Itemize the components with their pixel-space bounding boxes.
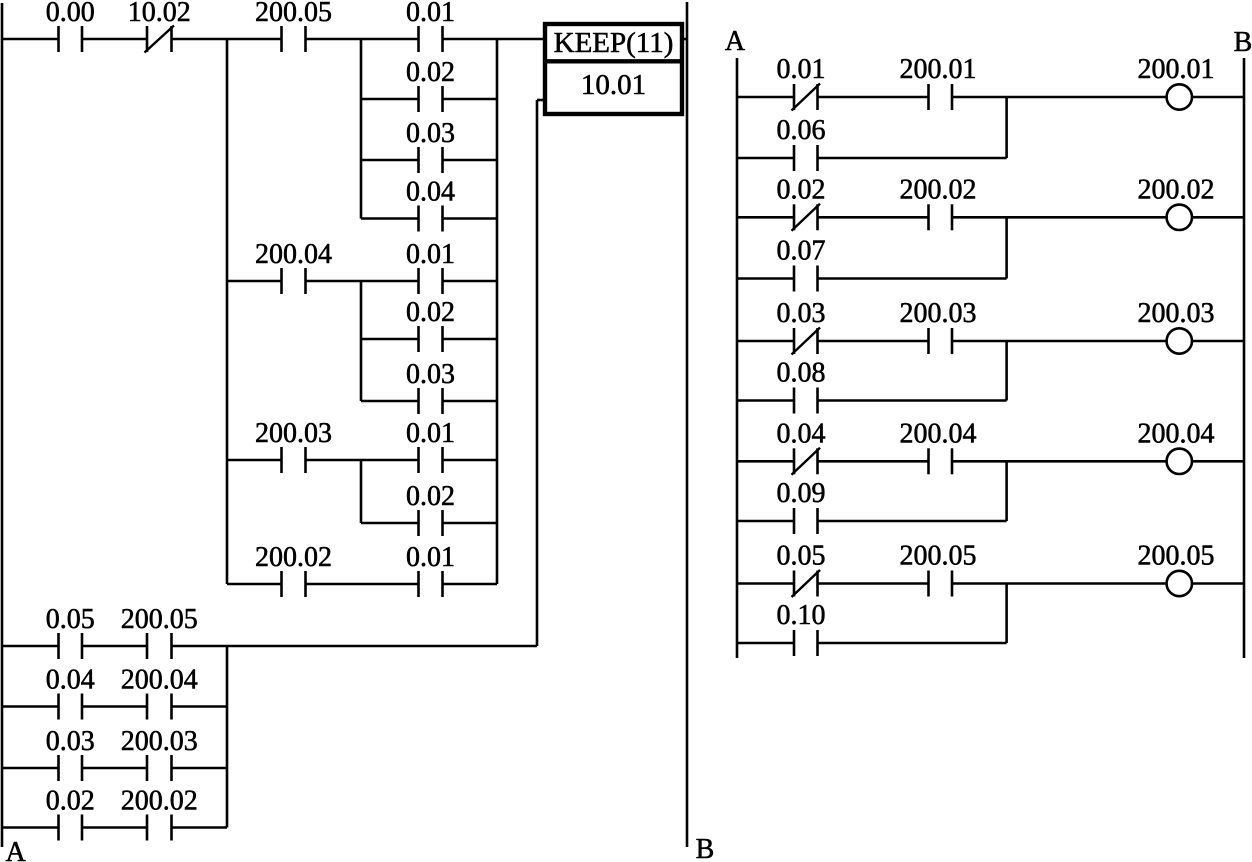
contact 10.02 NC [145,26,175,53]
wire reset stub into KEEP box [537,99,545,102]
svg-text:0.05: 0.05 [777,541,826,572]
coil 200.03 [1167,328,1192,353]
wire contact 0.02 to contact 200.02 [818,216,929,219]
wire reset vertical to KEEP box [536,100,539,646]
svg-text:200.04: 200.04 [121,665,198,696]
svg-text:B: B [1234,27,1252,58]
svg-text:0.04: 0.04 [777,418,826,449]
svg-text:0.07: 0.07 [777,236,826,267]
wire vertical branch J2 middle [360,281,363,401]
wire contact 200.05 to coil 200.05 [952,582,1167,585]
wire rail A to contact 0.10 [737,642,794,645]
svg-text:0.03: 0.03 [406,359,455,390]
svg-text:200.03: 200.03 [121,726,198,757]
svg-text:200.03: 200.03 [1138,298,1215,329]
contact 200.03 NO [147,755,172,781]
wire contact 0.03 to J3 [443,159,498,162]
wire contact 0.01 to contact 200.01 [818,96,929,99]
wire contact 0.03 to J3 [443,400,498,403]
coil 200.01 [1167,84,1192,109]
svg-text:200.04: 200.04 [1138,418,1215,449]
contact 0.00 NO [59,26,83,52]
wire contact 200.04 to coil 200.04 [952,460,1167,463]
wire branch rung to contact 0.02 [361,98,419,101]
wire vertical branch J3 [496,39,499,584]
wire contact 0.10 to junction [818,642,1007,645]
svg-text:0.00: 0.00 [46,0,95,28]
contact 0.03 NO [419,388,443,414]
wire contact 0.03 to contact 200.03 [82,767,147,770]
wire vertical branch J2 upper [360,39,363,219]
wire J1 to contact 200.03 [227,459,282,462]
wire lower branch vertical J1 [226,646,229,828]
wire contact 200.05 to reset vertical [172,645,538,648]
wire KEEP box to rail B [682,38,687,41]
wire contact 0.01 to J3 [443,459,498,462]
coil 200.05 [1167,571,1192,596]
svg-text:200.05: 200.05 [255,0,332,28]
svg-text:200.04: 200.04 [255,239,332,270]
wire rail A to contact 0.08 [737,399,794,402]
contact 200.05 NO [282,26,306,52]
wire contact 0.04 to contact 200.04 [82,705,147,708]
svg-text:KEEP(11): KEEP(11) [554,27,674,59]
contact 0.04 NO [59,694,83,720]
svg-text:0.02: 0.02 [406,481,455,512]
wire contact 200.04 to contact 0.01 [306,280,419,283]
coil 200.02 [1167,205,1192,230]
svg-text:200.02: 200.02 [121,786,198,817]
wire rail A to contact 0.02 [737,216,794,219]
wire rail A to contact 0.09 [737,520,794,523]
wire rail A to contact 0.06 [737,157,794,160]
svg-text:200.01: 200.01 [1138,54,1215,85]
instruction box KEEP(11) [545,24,682,114]
wire branch junction vertical 0.08 [1005,341,1008,401]
wire contact 0.02 to J3 [443,522,498,525]
contact 200.02 NO [147,815,172,841]
contact 0.01 NC [792,84,821,111]
wire branch rung to contact 0.03 [361,159,419,162]
svg-text:200.03: 200.03 [900,298,977,329]
wire contact 0.02 to J3 [443,338,498,341]
svg-text:B: B [696,834,715,862]
contact 0.09 NO [794,508,818,534]
wire contact 200.02 to contact 0.01 [306,583,419,586]
right ladder bus bar B [1243,58,1246,658]
left bus bar A (left rail) [1,3,4,847]
contact 0.03 NO [59,755,83,781]
svg-text:200.02: 200.02 [255,542,332,573]
contact 0.01 NO [419,447,443,473]
wire contact 0.02 to J3 [443,98,498,101]
svg-text:0.03: 0.03 [777,298,826,329]
wire rail A to contact 0.02 [2,826,59,829]
svg-text:A: A [725,26,746,57]
svg-text:0.04: 0.04 [406,177,455,208]
contact 0.10 NO [794,630,818,656]
contact 0.01 NO [419,268,443,294]
wire contact 0.04 to J3 [443,217,498,220]
wire contact 0.03 to contact 200.03 [818,340,929,343]
wire coil 200.04 to rail B [1192,460,1244,463]
svg-text:0.02: 0.02 [406,57,455,88]
svg-text:0.04: 0.04 [46,665,95,696]
wire J1 to contact 200.04 [227,280,282,283]
coil 200.04 [1167,449,1192,474]
svg-text:0.01: 0.01 [406,418,455,449]
wire rail A to contact 0.04 [2,705,59,708]
wire contact 200.03 to contact 0.01 [306,459,419,462]
svg-text:0.06: 0.06 [777,115,826,146]
svg-text:10.02: 10.02 [128,0,191,28]
svg-text:0.02: 0.02 [406,297,455,328]
contact 0.08 NO [794,388,818,414]
svg-text:200.02: 200.02 [1138,174,1215,205]
svg-text:0.01: 0.01 [777,54,826,85]
wire contact 0.08 to junction [818,399,1007,402]
wire contact 0.09 to junction [818,520,1007,523]
svg-text:0.05: 0.05 [46,604,95,635]
wire J1 to contact 200.02 [227,583,282,586]
wire rail A to contact 0.07 [737,277,794,280]
contact 200.03 NO [282,447,306,473]
svg-text:0.01: 0.01 [406,0,455,28]
wire rail A to contact 0.05 [737,582,794,585]
wire contact 0.07 to junction [818,277,1007,280]
contact 200.04 NO [282,268,306,294]
svg-text:200.02: 200.02 [900,174,977,205]
wire vertical branch J2 lower [360,460,363,523]
svg-text:0.01: 0.01 [406,542,455,573]
svg-text:0.01: 0.01 [406,239,455,270]
contact 0.01 NO [419,571,443,597]
contact 200.03 NO [929,328,953,354]
svg-text:0.03: 0.03 [406,118,455,149]
wire contact 200.02 to lower branch vertical [172,826,228,829]
contact 0.02 NO [419,86,443,112]
svg-text:0.02: 0.02 [777,174,826,205]
svg-text:200.05: 200.05 [1138,541,1215,572]
contact 200.04 NO [929,448,953,474]
wire rail A to contact 0.03 [2,767,59,770]
contact 0.04 NC [792,448,821,475]
wire contact 200.02 to coil 200.02 [952,216,1167,219]
svg-text:200.03: 200.03 [255,418,332,449]
contact 200.02 NO [929,204,953,230]
contact 0.05 NC [792,570,821,597]
svg-text:A: A [5,837,26,862]
wire contact 200.03 to lower branch vertical [172,767,228,770]
wire branch junction vertical 0.10 [1005,584,1008,644]
svg-text:0.02: 0.02 [46,786,95,817]
wire contact 0.01 to J3 [443,280,498,283]
wire contact 0.06 to junction [818,157,1007,160]
contact 0.07 NO [794,266,818,292]
wire contact 200.01 to coil 200.01 [952,96,1167,99]
contact 200.05 NO [929,571,953,597]
contact 200.05 NO [147,633,172,659]
wire vertical branch J1 [226,39,229,584]
contact 200.04 NO [147,694,172,720]
wire contact 0.00 to contact 10.02 [82,38,147,41]
contact 0.03 NO [419,147,443,173]
contact 200.01 NO [929,84,953,110]
svg-text:200.05: 200.05 [121,604,198,635]
wire rail A to contact 0.05 [2,645,59,648]
contact 0.02 NO [419,510,443,536]
contact 0.01 NO [419,26,443,52]
svg-text:0.03: 0.03 [46,726,95,757]
wire contact 0.01 to KEEP box through node J3 [443,38,546,41]
wire coil 200.03 to rail B [1192,340,1244,343]
right bus bar B (center rail) [686,2,689,847]
wire coil 200.05 to rail B [1192,582,1244,585]
wire branch junction vertical 0.07 [1005,217,1008,278]
wire contact 0.02 to contact 200.02 [82,826,147,829]
contact 200.02 NO [282,571,306,597]
contact 0.03 NC [792,328,821,355]
svg-text:0.08: 0.08 [777,358,826,389]
wire contact 0.01 to J3 [443,583,498,586]
svg-text:200.01: 200.01 [900,54,977,85]
wire coil 200.02 to rail B [1192,216,1244,219]
contact 0.04 NO [419,206,443,232]
contact 0.02 NC [792,204,821,231]
wire contact 0.05 to contact 200.05 [818,582,929,585]
wire contact 10.02 to contact 200.05 through node J1 [172,38,282,41]
contact 0.02 NO [59,815,83,841]
contact 0.06 NO [794,145,818,171]
wire branch rung to contact 0.02 [361,522,419,525]
wire branch rung to contact 0.02 [361,338,419,341]
svg-text:200.04: 200.04 [900,418,977,449]
svg-text:0.09: 0.09 [777,478,826,509]
wire rail A to contact 0.01 [737,96,794,99]
wire contact 200.03 to coil 200.03 [952,340,1167,343]
wire coil 200.01 to rail B [1192,96,1244,99]
wire contact 0.05 to contact 200.05 [82,645,147,648]
svg-text:10.01: 10.01 [581,69,646,101]
wire branch rung to contact 0.04 [361,217,419,220]
wire rail A to contact 0.04 [737,460,794,463]
wire contact 0.04 to contact 200.04 [818,460,929,463]
contact 0.05 NO [59,633,83,659]
wire contact 200.05 to contact 0.01 through node J2 [306,38,419,41]
wire contact 200.04 to lower branch vertical [172,705,228,708]
wire rail A to contact 0.03 [737,340,794,343]
svg-text:200.05: 200.05 [900,541,977,572]
svg-text:0.10: 0.10 [777,600,826,631]
wire branch rung to contact 0.03 [361,400,419,403]
right ladder bus bar A [736,58,739,658]
wire branch junction vertical 0.06 [1005,97,1008,158]
contact 0.02 NO [419,326,443,352]
wire rung1 from rail A to contact 0.00 [2,38,59,41]
wire branch junction vertical 0.09 [1005,461,1008,521]
